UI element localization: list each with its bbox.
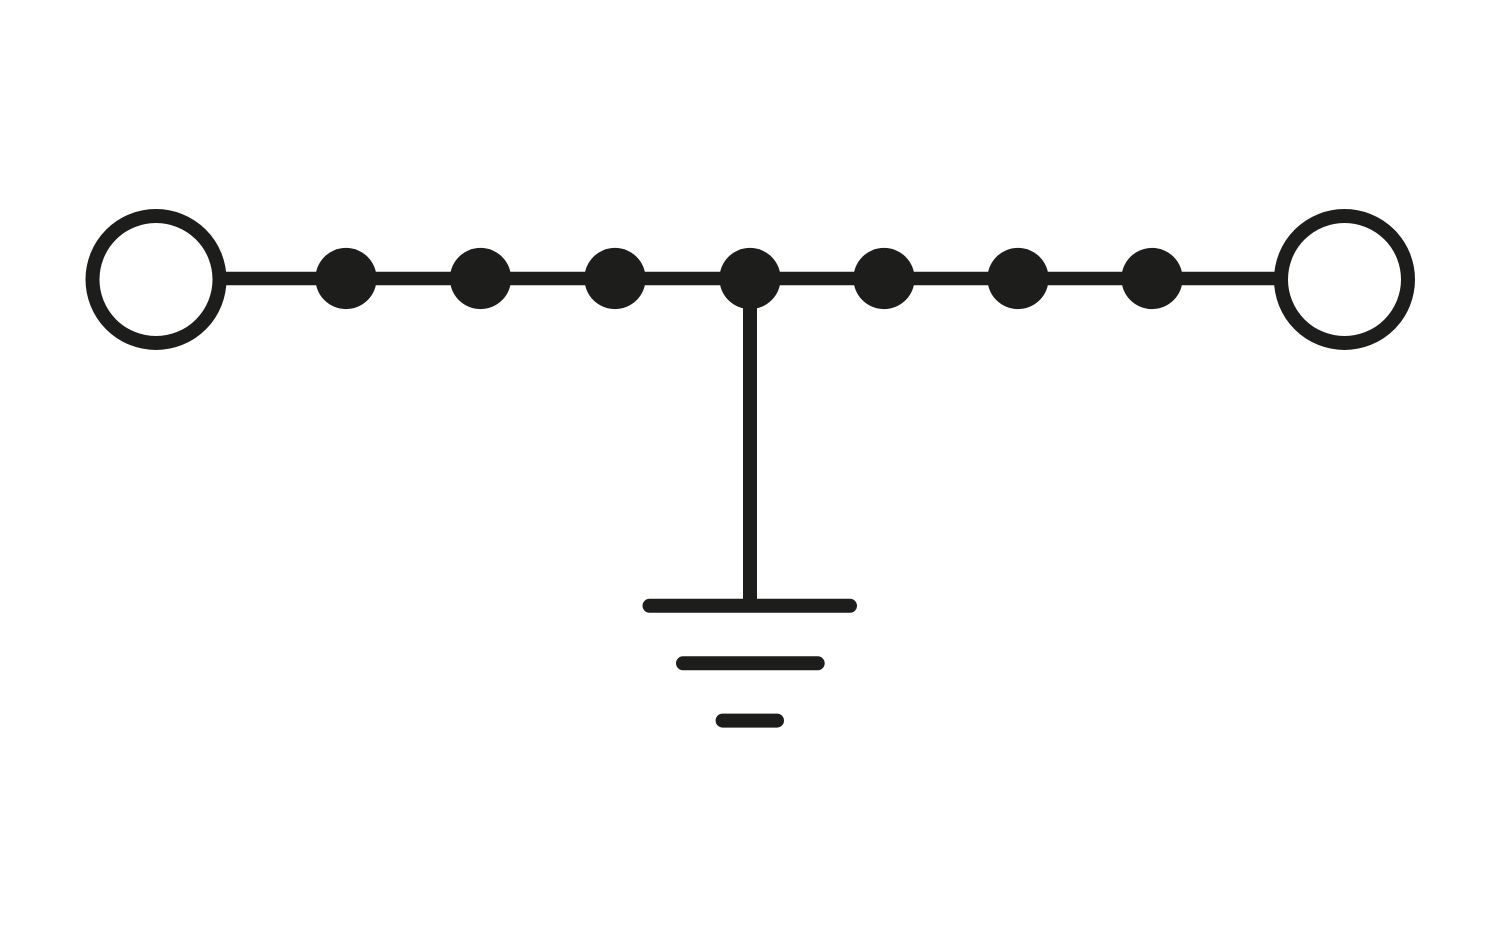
junction dot 7 bbox=[1121, 248, 1182, 309]
wire horizontal bus bbox=[222, 272, 1278, 286]
terminal circle left bbox=[93, 216, 220, 343]
junction dot 5 bbox=[853, 248, 914, 309]
wire vertical to ground bbox=[743, 279, 757, 606]
terminal circle right bbox=[1281, 216, 1408, 343]
junction dot 2 bbox=[450, 248, 511, 309]
junction dot 6 bbox=[987, 248, 1048, 309]
junction dot 1 bbox=[315, 248, 376, 309]
junction dot 4 bbox=[719, 248, 780, 309]
ground bbox=[650, 606, 851, 721]
junction dot 3 bbox=[584, 248, 645, 309]
